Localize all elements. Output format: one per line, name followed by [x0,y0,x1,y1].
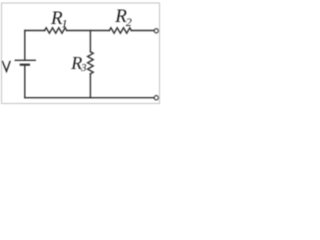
terminal: bottom right open circle [154,96,158,100]
svg-text:1: 1 [62,16,68,30]
resistor R2 [109,28,131,33]
label V (battery voltage) [2,61,10,71]
battery V positive plate (long) [15,59,35,61]
wire: top horizontal middle segment (node between R1 and R2) [67,30,110,32]
resistor R3 [88,52,94,74]
wire: bottom horizontal to terminal [25,97,155,99]
wire: R3 bottom lead to bottom wire [89,74,91,98]
svg-text:2: 2 [126,15,132,29]
wire: top horizontal left segment [25,30,45,32]
svg-text:3: 3 [80,62,87,74]
wire: battery negative to bottom-left corner [24,65,26,98]
wire: R3 top lead from top node [89,31,91,52]
terminal: top right open circle [154,29,158,33]
frame border [2,3,160,104]
resistor R1 [45,28,67,33]
battery V negative plate (short) [21,64,29,66]
wire: top horizontal right segment to terminal [131,30,154,32]
wire: left vertical top (battery + to top-left corner) [24,31,26,61]
